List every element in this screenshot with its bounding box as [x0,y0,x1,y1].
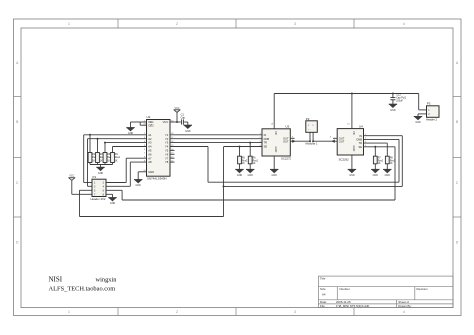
svg-text:P3: P3 [427,102,431,106]
svg-text:3: 3 [294,22,296,26]
svg-text:Res2: Res2 [253,160,259,162]
svg-text:1K: 1K [100,160,103,162]
wire net A3 from U2 to R3 [105,142,147,144]
wire P1 pin8 to ground [106,194,113,197]
svg-text:File:: File: [320,304,326,308]
svg-text:OE2: OE2 [148,123,154,127]
wire Y3 to U3 TR [170,142,262,144]
wire P1 pin2 up to U2 A7 [106,158,147,182]
svg-text:GND: GND [349,174,355,177]
wire U3 OUT stub [290,137,294,139]
svg-text:GND: GND [415,121,421,124]
ground for U2 [134,180,142,188]
svg-text:VCC: VCC [163,120,169,124]
svg-text:Modular 1: Modular 1 [306,142,318,146]
svg-text:NISI: NISI [49,276,63,284]
svg-text:GND: GND [352,146,356,152]
ground for R8 [383,169,391,177]
resistor R3 [103,142,113,165]
power VCC symbol near P1 [68,175,75,181]
wire P1 pin6 down to bus H4 [106,190,122,200]
ground for R6 [246,169,254,177]
junction U4 VD / rail [351,93,353,95]
wire net A4 from U2 to R4 [113,146,147,148]
wire P1 pin4 up to U2 A8 [106,162,147,186]
capacitor C1 [181,113,186,125]
svg-text:1K: 1K [390,163,393,165]
wire U3 SE row [224,146,262,148]
svg-text:GND: GND [274,147,278,153]
wire U3 OUT to P2 to U4 OUT [290,140,337,142]
svg-text:Y8: Y8 [165,160,169,164]
resistor R7 [373,146,383,170]
svg-text:2: 2 [176,22,178,26]
svg-text:A5: A5 [148,149,152,153]
svg-text:Y5: Y5 [165,149,169,153]
svg-text:P2: P2 [306,117,310,121]
svg-text:VD: VD [352,131,356,135]
svg-text:3: 3 [294,310,296,314]
svg-text:A1: A1 [148,133,152,137]
svg-text:GND: GND [390,109,396,112]
wire U3 VD to top rail [273,94,275,129]
svg-text:4: 4 [403,22,405,26]
svg-text:1: 1 [68,22,70,26]
connector P1 Header 4X2 [91,175,107,201]
resistor R6 [248,142,258,170]
svg-text:IN: IN [264,133,267,137]
svg-text:VCC: VCC [174,107,179,110]
wire P3 pin 2 to ground [418,114,427,117]
svg-text:Revision: Revision [417,287,428,291]
svg-text:1: 1 [68,310,70,314]
svg-text:VD: VD [274,131,278,135]
ground for C13 [389,104,397,112]
wire Y1 to U3 IN [170,134,262,136]
title block text [320,277,428,308]
junction U3 SE bus [223,185,225,187]
svg-text:SE: SE [264,145,268,149]
op-amp U2 octal buffer SN74ALS540N [143,115,174,180]
svg-text:Header 4X2: Header 4X2 [91,197,106,201]
svg-text:4: 4 [403,310,405,314]
svg-text:Res1: Res1 [115,157,121,159]
receiver IC U4 SC2262 [337,124,363,161]
svg-text:1K: 1K [242,163,245,165]
svg-text:Y7: Y7 [165,156,169,160]
ground for U2 OE pins [126,128,134,136]
svg-text:wingxin: wingxin [96,277,118,284]
svg-text:GND: GND [272,174,278,177]
svg-text:GND: GND [185,130,191,133]
connector P3 Header 2 [426,102,439,122]
svg-text:Y6: Y6 [165,152,169,156]
svg-text:ALFS_TECH.taobao.com: ALFS_TECH.taobao.com [49,286,116,293]
svg-text:Number: Number [340,287,350,291]
svg-text:100uF: 100uF [396,99,403,102]
svg-text:A3: A3 [148,141,152,145]
wire Y4 to U4 DNB [170,139,399,182]
svg-text:DNB: DNB [357,138,363,142]
svg-text:1K: 1K [107,160,110,162]
ground for R5 [235,169,243,177]
junction P2 legs [309,140,314,142]
wire U4 OUT stub [333,137,337,139]
junction C13 / rail [392,93,394,95]
svg-text:DNB: DNB [264,137,270,141]
svg-text:Res2: Res2 [378,160,384,162]
svg-text:Drawn By:: Drawn By: [398,304,412,308]
ground for resistor pack [96,167,104,175]
svg-text:+ -: + - [308,129,311,131]
wire U4 GND pin down [351,155,353,169]
svg-text:Size: Size [320,287,326,291]
wire U2 GND pin to ground [138,172,146,180]
svg-text:Y2: Y2 [165,137,169,141]
svg-text:OUT: OUT [283,139,289,143]
resistor R1 [88,134,98,165]
svg-text:SC2272: SC2272 [281,156,292,160]
svg-text:GND: GND [385,174,391,177]
ground for P1 [108,198,116,206]
svg-text:2: 2 [176,310,178,314]
svg-text:Header 2: Header 2 [426,117,438,121]
wire A1 down to P1 pin 1 [84,135,92,183]
wire P1 pin 5 down to bottom loop [80,190,93,216]
svg-text:1K: 1K [115,160,118,162]
wire C1 to ground [184,122,188,125]
svg-text:Cap: Cap [181,116,186,119]
ground for U3 [270,169,278,177]
wire P2 legs [310,132,313,141]
svg-text:Y1: Y1 [165,133,169,137]
svg-text:Y3: Y3 [165,141,169,145]
svg-text:1K: 1K [253,163,256,165]
arrow at U4 OUT [331,140,334,143]
svg-text:A4: A4 [148,145,152,149]
wire U4 TR to R8 [364,142,388,144]
svg-text:VCC: VCC [69,175,74,178]
sheet inner border [21,28,453,308]
wire Y8 stub [170,161,175,163]
junction VCC/C1 [176,121,178,123]
wire U2 OE1/OE2 to ground [131,122,147,128]
svg-text:P1: P1 [93,175,97,179]
wire U2 VCC pin to VCC rail [170,112,177,122]
U3 pin numbers [260,123,295,147]
svg-text:GND: GND [237,174,243,177]
power VCC symbol near U2 [174,107,181,113]
svg-text:A2: A2 [148,137,152,141]
svg-text:Res2: Res2 [242,160,248,162]
wire U4 VD to top rail [351,94,353,129]
svg-text:U4: U4 [359,124,363,128]
svg-text:1K: 1K [378,163,381,165]
svg-text:F:\B_MINI NT5.5(4)\b.ddb: F:\B_MINI NT5.5(4)\b.ddb [336,304,370,308]
svg-text:GND: GND [136,184,142,187]
wire VCC to C1 [177,121,181,123]
wire Y5 stub [170,149,175,151]
capacitor C13 polarized [390,93,406,104]
svg-text:Y4: Y4 [165,145,169,149]
wire U3 SE loop to left side [80,147,224,217]
svg-text:GND: GND [148,170,154,174]
wire top VCC rail [274,93,419,95]
wire rail to P3 pin 1 [419,94,427,110]
svg-text:A4: A4 [322,293,326,297]
svg-text:U2: U2 [147,115,151,119]
svg-text:GND: GND [110,202,116,205]
resistor R8 [385,143,395,169]
ground for C1 [184,125,192,133]
wire A2 down to P1 pin 3 [88,139,93,187]
svg-text:IN: IN [359,134,362,138]
resistor R2 [96,138,106,165]
svg-text:TR: TR [264,141,268,145]
svg-text:A8: A8 [148,160,152,164]
svg-text:GND: GND [373,174,379,177]
wire resistor pack common to ground [90,165,113,168]
wire VCC to P1 pin 7 [72,180,92,194]
svg-text:A7: A7 [148,156,152,160]
svg-text:TR: TR [359,141,363,145]
U4 pin numbers [330,123,367,147]
svg-text:Title: Title [320,277,326,281]
wire U3 GND pin down [273,156,275,169]
ground for R7 [371,169,379,177]
transmitter IC U3 SC2262 [262,125,292,161]
svg-text:1K: 1K [92,160,95,162]
ground for U4 [348,169,356,177]
wire Y2 to U3 DNB [170,138,262,140]
wire net A1 from U2 to left bus [84,134,147,136]
svg-text:A6: A6 [148,152,152,156]
svg-text:SE: SE [359,145,363,149]
arrow at U3 OUT [292,140,295,143]
svg-text:GND: GND [248,174,254,177]
wire P1 pin6 bus to U4 SE [122,147,395,200]
resistor R4 [111,147,121,165]
svg-text:GND: GND [98,172,104,175]
svg-text:OUT: OUT [339,139,345,143]
connector P2 RF module [306,117,318,146]
wire net A2 from U2 to left bus [88,138,147,140]
svg-text:U3: U3 [286,125,290,129]
svg-text:SN74ALS540N: SN74ALS540N [147,177,167,181]
wire Y6 stub [170,153,175,155]
svg-text:SC2262: SC2262 [339,158,350,162]
ground for P3 [414,117,422,125]
title block [318,276,453,308]
wire U3 SE bus to U4 IN [224,136,403,187]
wire Y7 stub [170,157,175,159]
resistor R5 [238,146,248,170]
